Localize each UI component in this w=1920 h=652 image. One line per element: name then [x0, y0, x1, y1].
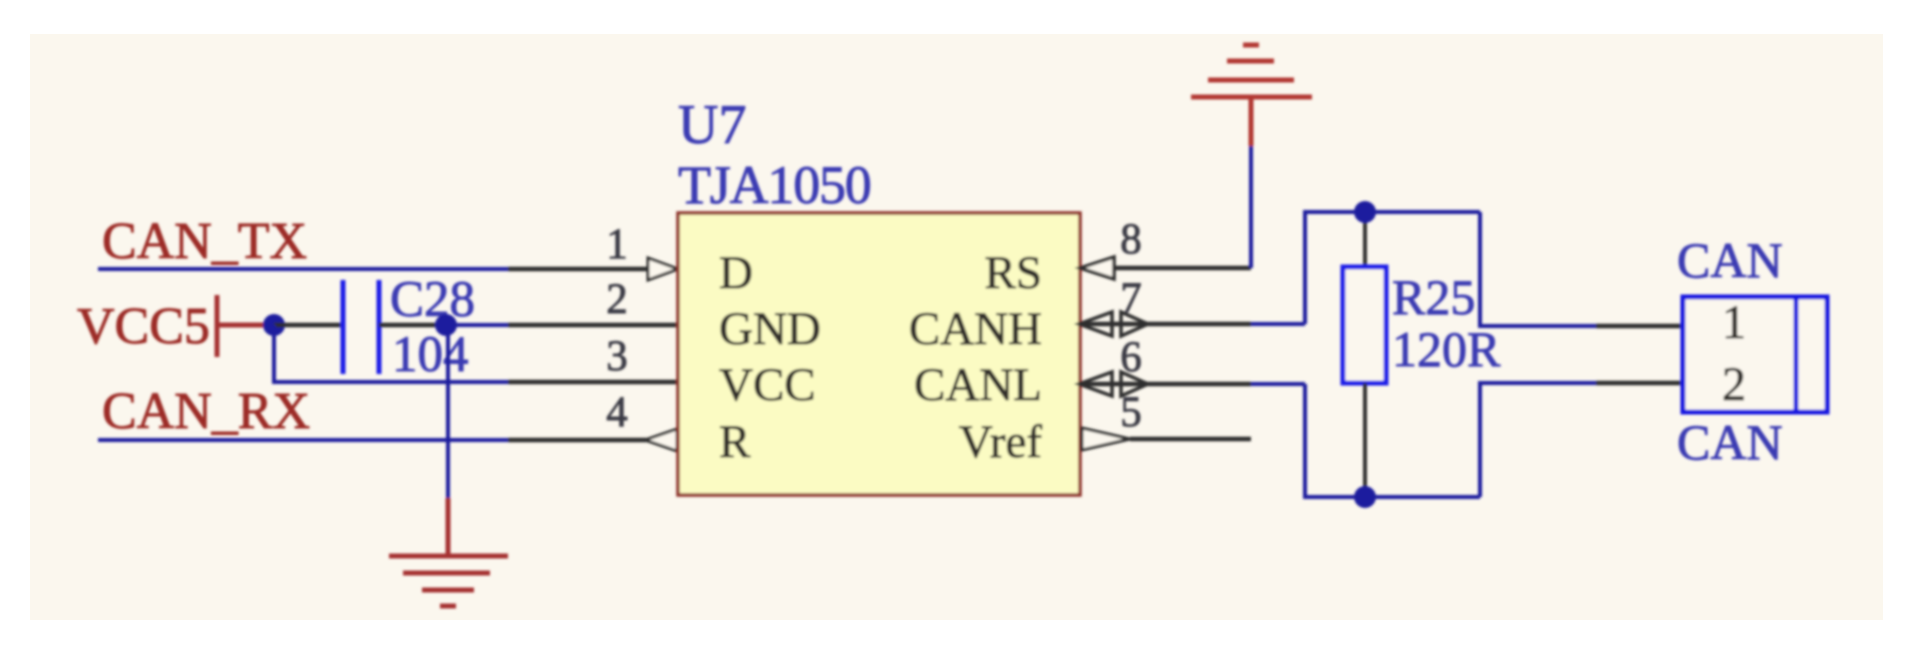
svg-text:D: D: [719, 247, 753, 299]
svg-text:4: 4: [606, 389, 628, 436]
wire pin5 black: [1130, 437, 1251, 442]
svg-text:3: 3: [606, 333, 628, 380]
wire pin6 black: [1079, 382, 1251, 387]
wire VCC5 to C28: [274, 323, 343, 328]
wire to CAN pin2 black: [1596, 381, 1683, 386]
svg-text:CAN: CAN: [1677, 414, 1783, 470]
svg-text:CAN_TX: CAN_TX: [102, 213, 307, 270]
svg-text:VCC5: VCC5: [77, 298, 210, 355]
svg-text:6: 6: [1120, 334, 1142, 381]
resistor R25 body: [1343, 267, 1386, 383]
pin 6 bidirectional arrows: [1079, 372, 1112, 396]
ground stem red part: [1249, 97, 1254, 146]
svg-text:7: 7: [1120, 275, 1142, 322]
wire pin7 black: [1079, 322, 1251, 327]
junction dot bottom: [1354, 486, 1376, 508]
svg-text:1: 1: [606, 221, 628, 268]
wire pin3 black: [508, 380, 678, 385]
ground stem to RS: blue part: [1249, 146, 1253, 268]
svg-text:120R: 120R: [1392, 321, 1501, 377]
ground stem red: [446, 498, 451, 556]
svg-text:CANL: CANL: [914, 359, 1042, 411]
junction dot VCC5 node: [263, 314, 285, 336]
IC U7 TJA1050 body: [678, 213, 1080, 495]
svg-text:CANH: CANH: [909, 303, 1042, 355]
svg-text:104: 104: [392, 327, 469, 383]
wire pin1 black: [508, 267, 650, 272]
R25 loop right vertical top to CAN pin1: [1480, 212, 1596, 326]
svg-text:2: 2: [1722, 358, 1746, 411]
wire pin8 black: [1114, 266, 1251, 271]
wire VCC5 node down: [274, 325, 508, 382]
ground symbol bottom: [389, 554, 508, 559]
VCC5 red wire: [217, 323, 270, 328]
svg-text:GND: GND: [719, 303, 821, 355]
svg-text:Vref: Vref: [959, 416, 1043, 468]
svg-text:5: 5: [1120, 389, 1142, 436]
wire GND node to pin2 blue: [446, 323, 508, 327]
svg-text:2: 2: [606, 276, 628, 323]
R25 loop right vertical bottom to CAN pin2: [1480, 383, 1596, 497]
R25 loop left vertical bottom: [1305, 384, 1480, 497]
svg-text:8: 8: [1120, 216, 1142, 263]
VCC5 bar: [215, 295, 220, 357]
svg-text:VCC: VCC: [719, 359, 816, 411]
connector CAN box: [1683, 297, 1827, 412]
pin 1 arrow into chip: [648, 258, 678, 280]
wire CANH blue: [1251, 322, 1305, 326]
wire GND node down blue: [446, 325, 450, 498]
svg-text:U7: U7: [678, 94, 746, 156]
svg-text:CAN: CAN: [1677, 232, 1783, 288]
ground symbol top (inverted): [1191, 95, 1312, 100]
svg-text:R: R: [719, 416, 751, 468]
junction dot GND node: [435, 314, 457, 336]
svg-text:1: 1: [1722, 296, 1746, 349]
R25 loop left vertical top: [1305, 212, 1480, 324]
resistor R25 top lead: [1363, 212, 1367, 267]
junction dot top: [1354, 201, 1376, 223]
wire C28 right plate to GND node: [379, 323, 440, 328]
svg-text:R25: R25: [1392, 269, 1475, 325]
svg-text:TJA1050: TJA1050: [678, 155, 871, 215]
svg-text:CAN_RX: CAN_RX: [102, 383, 310, 440]
wire CAN_RX blue: [98, 438, 508, 442]
connector divider: [1794, 297, 1799, 412]
pin 7 bidirectional arrows: [1079, 312, 1112, 336]
svg-text:RS: RS: [985, 247, 1043, 299]
wire CAN_TX blue: [98, 267, 508, 271]
pin 4 arrow out of chip: [645, 429, 677, 451]
pin 5 arrow out of chip: [1082, 428, 1130, 450]
resistor R25 bottom lead: [1363, 383, 1367, 497]
pin 8 arrow into chip: [1080, 257, 1114, 279]
wire pin2 black: [508, 323, 678, 328]
wire to CAN pin1 black: [1596, 324, 1683, 329]
wire pin4 black: [508, 438, 648, 443]
wire CANL blue: [1251, 382, 1305, 386]
capacitor C28 plates: [341, 280, 346, 374]
svg-text:C28: C28: [390, 272, 475, 328]
